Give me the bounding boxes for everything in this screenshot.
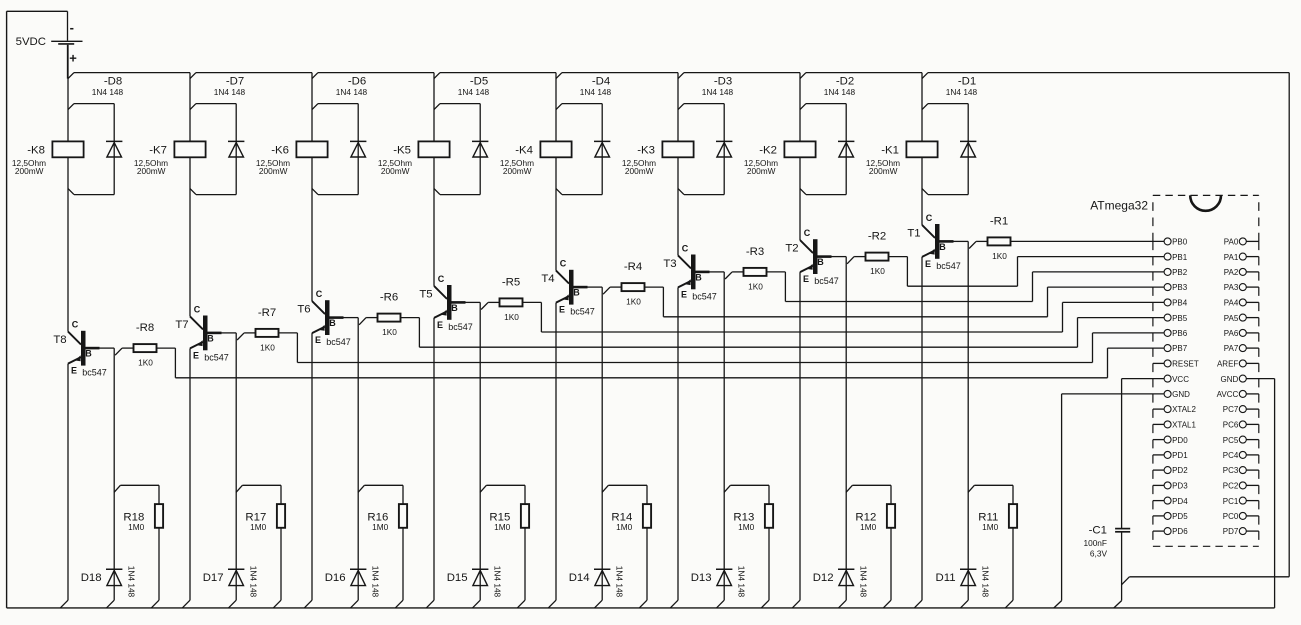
transistor T7 bc547 [175, 304, 228, 362]
pin PA1 [1224, 253, 1259, 262]
pin PC4 [1223, 451, 1259, 460]
svg-text:E: E [315, 335, 321, 345]
diode D7 flyback 1N4148 [190, 76, 246, 195]
svg-text:-: - [70, 20, 74, 35]
diode D18 1N4148 [81, 566, 137, 608]
svg-text:PD1: PD1 [1172, 451, 1188, 460]
svg-text:E: E [925, 259, 931, 269]
svg-text:XTAL2: XTAL2 [1172, 405, 1196, 414]
pin PC3 [1223, 466, 1259, 475]
svg-text:T2: T2 [785, 243, 798, 255]
svg-text:T3: T3 [663, 258, 676, 270]
wire coil rail stage 7 [189, 73, 191, 317]
svg-text:AVCC: AVCC [1217, 390, 1239, 399]
pin GND [1221, 375, 1247, 384]
svg-text:D17: D17 [203, 572, 224, 584]
pin PC6 [1223, 421, 1259, 430]
svg-text:C: C [194, 304, 201, 314]
svg-text:1N4 148: 1N4 148 [615, 566, 625, 598]
svg-text:1N4 148: 1N4 148 [127, 566, 137, 598]
svg-text:-C1: -C1 [1089, 525, 1107, 537]
svg-text:PC0: PC0 [1223, 512, 1239, 521]
svg-text:PB2: PB2 [1172, 268, 1188, 277]
svg-text:-D2: -D2 [836, 76, 854, 88]
svg-text:100nF: 100nF [1083, 538, 1107, 548]
pin GND [1164, 390, 1190, 399]
relay K6 [256, 141, 328, 176]
svg-text:AREF: AREF [1217, 360, 1238, 369]
svg-text:bc547: bc547 [692, 291, 717, 301]
svg-text:bc547: bc547 [204, 352, 229, 362]
svg-text:PC6: PC6 [1223, 421, 1239, 430]
svg-text:PA4: PA4 [1224, 299, 1239, 308]
resistor R8 1K0 [122, 322, 156, 368]
svg-text:C: C [804, 228, 811, 238]
svg-text:1K0: 1K0 [992, 251, 1007, 261]
resistor R2 1K0 [854, 231, 888, 277]
svg-text:-K2: -K2 [759, 144, 777, 156]
wire base node T4 [587, 287, 610, 600]
svg-text:-R8: -R8 [136, 322, 154, 334]
pin PB0 [1164, 238, 1188, 247]
wire emitter rail T1 to ground [914, 257, 922, 608]
svg-text:E: E [193, 350, 199, 360]
wire base node T6 [343, 318, 366, 601]
pin PB5 [1164, 314, 1188, 323]
wire coil rail stage 4 [555, 73, 557, 271]
svg-text:6,3V: 6,3V [1090, 549, 1108, 559]
svg-text:1M0: 1M0 [616, 522, 633, 532]
pin PD7 [1223, 527, 1259, 536]
svg-text:-K5: -K5 [393, 144, 411, 156]
wire +5V top bus segment stage 8 [68, 73, 190, 79]
wire base node T2 [831, 257, 854, 601]
transistor T1 bc547 [907, 213, 960, 271]
svg-text:200mW: 200mW [137, 166, 166, 176]
svg-text:200mW: 200mW [747, 166, 776, 176]
wire top bus right drop [1288, 73, 1290, 577]
pin PC7 [1223, 405, 1259, 414]
pin PC5 [1223, 436, 1259, 445]
svg-text:PC3: PC3 [1223, 466, 1239, 475]
svg-text:T5: T5 [419, 288, 432, 300]
svg-text:1N4 148: 1N4 148 [824, 87, 856, 97]
svg-text:D18: D18 [81, 572, 102, 584]
diode D12 1N4148 [813, 566, 869, 608]
diode D15 1N4148 [447, 566, 503, 608]
diode D8 flyback 1N4148 [68, 76, 124, 195]
svg-text:GND: GND [1172, 390, 1190, 399]
svg-text:-K8: -K8 [27, 144, 45, 156]
svg-text:T4: T4 [541, 273, 554, 285]
svg-text:200mW: 200mW [503, 166, 532, 176]
resistor R18 1M0 [114, 485, 163, 608]
svg-text:1N4 148: 1N4 148 [580, 87, 612, 97]
wire base node T8 [99, 348, 122, 600]
svg-text:-D7: -D7 [226, 76, 244, 88]
svg-text:-D4: -D4 [592, 76, 610, 88]
wire +5V top bus segment stage 4 [556, 73, 678, 79]
diode D16 1N4148 [325, 566, 381, 608]
svg-text:T8: T8 [53, 334, 66, 346]
svg-text:PB4: PB4 [1172, 299, 1188, 308]
transistor T2 bc547 [785, 228, 838, 286]
wire +5V top bus segment stage 2 [800, 73, 922, 79]
svg-text:B: B [329, 318, 336, 328]
diode D4 flyback 1N4148 [556, 76, 612, 195]
svg-text:D16: D16 [325, 572, 346, 584]
resistor R7 1K0 [244, 307, 278, 353]
svg-text:-R2: -R2 [868, 231, 886, 243]
svg-text:1M0: 1M0 [860, 522, 877, 532]
diode D17 1N4148 [203, 566, 259, 608]
svg-text:1M0: 1M0 [372, 522, 389, 532]
svg-text:ATmega32: ATmega32 [1090, 198, 1148, 212]
resistor R14 1M0 [602, 485, 651, 608]
svg-text:PD7: PD7 [1223, 527, 1239, 536]
svg-text:E: E [71, 366, 77, 376]
svg-text:1M0: 1M0 [738, 522, 755, 532]
svg-text:1M0: 1M0 [982, 522, 999, 532]
pin VCC [1164, 375, 1189, 384]
svg-text:1N4 148: 1N4 148 [702, 87, 734, 97]
wire base node T1 [953, 241, 976, 600]
svg-text:bc547: bc547 [814, 276, 839, 286]
transistor T6 bc547 [297, 289, 350, 347]
pin PD1 [1153, 451, 1188, 460]
pin PA4 [1224, 299, 1259, 308]
wire emitter rail T7 to ground [182, 348, 190, 608]
wire +5V top bus segment stage 5 [434, 73, 556, 79]
wire +5V top bus segment stage 7 [190, 73, 312, 79]
svg-text:PA7: PA7 [1224, 344, 1239, 353]
svg-text:PA3: PA3 [1224, 283, 1239, 292]
svg-text:1K0: 1K0 [504, 312, 519, 322]
capacitor C1 100nF [1083, 379, 1130, 608]
wire +5V top bus segment stage 6 [312, 73, 434, 79]
svg-text:PA5: PA5 [1224, 314, 1239, 323]
svg-text:bc547: bc547 [936, 261, 961, 271]
svg-text:1N4 148: 1N4 148 [859, 566, 869, 598]
svg-text:PC4: PC4 [1223, 451, 1239, 460]
svg-text:B: B [207, 333, 214, 343]
diode D1 flyback 1N4148 [922, 76, 978, 195]
pin PA5 [1224, 314, 1259, 323]
svg-text:PB0: PB0 [1172, 238, 1188, 247]
svg-text:1M0: 1M0 [250, 522, 267, 532]
transistor T4 bc547 [541, 259, 594, 317]
svg-text:1K0: 1K0 [382, 327, 397, 337]
pin PA0 [1224, 238, 1259, 247]
wire coil rail stage 2 [799, 73, 801, 241]
resistor R11 1M0 [968, 485, 1017, 608]
wire coil rail stage 1 [921, 73, 923, 225]
svg-text:PA0: PA0 [1224, 238, 1239, 247]
diode D3 flyback 1N4148 [678, 76, 734, 195]
pin PA7 [1224, 344, 1259, 353]
svg-text:PD2: PD2 [1172, 466, 1188, 475]
svg-text:200mW: 200mW [625, 166, 654, 176]
pin PD6 [1153, 527, 1188, 536]
wire emitter rail T5 to ground [426, 318, 434, 608]
wire coil rail stage 8 [67, 45, 69, 332]
svg-text:1M0: 1M0 [128, 522, 145, 532]
wire emitter rail T3 to ground [670, 287, 678, 608]
svg-text:-D1: -D1 [958, 76, 976, 88]
svg-text:XTAL1: XTAL1 [1172, 421, 1196, 430]
svg-text:T7: T7 [175, 319, 188, 331]
transistor T8 bc547 [53, 320, 106, 378]
svg-text:1K0: 1K0 [748, 281, 763, 291]
wire base node T7 [221, 333, 244, 600]
svg-text:PA2: PA2 [1224, 268, 1239, 277]
svg-text:1N4 148: 1N4 148 [336, 87, 368, 97]
svg-text:PA1: PA1 [1224, 253, 1239, 262]
svg-text:D13: D13 [691, 572, 712, 584]
svg-text:D15: D15 [447, 572, 468, 584]
svg-text:200mW: 200mW [381, 166, 410, 176]
wire coil rail stage 6 [311, 73, 313, 302]
svg-text:200mW: 200mW [15, 166, 44, 176]
svg-text:1N4 148: 1N4 148 [458, 87, 490, 97]
wire emitter rail T4 to ground [548, 303, 556, 608]
pin PC2 [1223, 482, 1259, 491]
svg-text:B: B [695, 272, 702, 282]
pin PB7 [1164, 344, 1188, 353]
wire signal R7 to PB6 [279, 333, 1165, 363]
svg-text:B: B [817, 257, 824, 267]
svg-text:PB5: PB5 [1172, 314, 1188, 323]
svg-text:PB1: PB1 [1172, 253, 1188, 262]
svg-text:B: B [573, 288, 580, 298]
svg-text:1N4 148: 1N4 148 [249, 566, 259, 598]
svg-text:bc547: bc547 [82, 368, 107, 378]
pin AREF [1217, 360, 1259, 369]
wire VCC to C1 [1122, 378, 1165, 380]
resistor R17 1M0 [236, 485, 285, 608]
wire right GND pin to ground rail [1246, 379, 1274, 608]
svg-text:PC1: PC1 [1223, 497, 1239, 506]
resistor R6 1K0 [366, 292, 400, 338]
wire signal R6 to PB5 [401, 318, 1165, 348]
resistor R1 1K0 [976, 215, 1010, 261]
wire coil rail stage 3 [677, 73, 679, 256]
transistor T3 bc547 [663, 243, 716, 301]
svg-text:RESET: RESET [1172, 360, 1199, 369]
wire base node T3 [709, 272, 732, 600]
svg-text:-R7: -R7 [258, 307, 276, 319]
svg-text:C: C [926, 213, 933, 223]
resistor R13 1M0 [724, 485, 773, 608]
pin PB3 [1164, 283, 1188, 292]
svg-text:PB3: PB3 [1172, 283, 1188, 292]
svg-text:1K0: 1K0 [626, 297, 641, 307]
pin PB4 [1164, 299, 1188, 308]
pin XTAL2 [1153, 405, 1197, 414]
svg-text:5VDC: 5VDC [16, 36, 46, 48]
pin PA6 [1224, 329, 1259, 338]
svg-text:-R4: -R4 [624, 261, 642, 273]
svg-text:VCC: VCC [1172, 375, 1189, 384]
svg-text:D14: D14 [569, 572, 590, 584]
pin PD3 [1153, 482, 1188, 491]
pin PC1 [1223, 497, 1259, 506]
svg-text:PD5: PD5 [1172, 512, 1188, 521]
relay K7 [134, 141, 206, 176]
wire lower right horizontal [1122, 577, 1290, 585]
resistor R4 1K0 [610, 261, 644, 307]
relay K1 [866, 141, 938, 176]
svg-text:-K7: -K7 [149, 144, 167, 156]
svg-text:-R1: -R1 [990, 215, 1008, 227]
battery 5VDC [16, 11, 83, 78]
svg-text:GND: GND [1221, 375, 1239, 384]
svg-text:C: C [438, 274, 445, 284]
svg-text:D11: D11 [936, 572, 956, 584]
svg-text:-D3: -D3 [714, 76, 732, 88]
resistor R3 1K0 [732, 246, 766, 292]
wire signal R8 to PB7 [157, 348, 1165, 378]
svg-text:1K0: 1K0 [138, 358, 153, 368]
wire signal R2 to PB1 [889, 257, 1165, 287]
svg-text:C: C [682, 243, 689, 253]
wire signal R4 to PB3 [645, 287, 1165, 317]
svg-text:-R3: -R3 [746, 246, 764, 258]
wire base node T5 [465, 302, 488, 600]
pin PA3 [1224, 283, 1259, 292]
resistor R15 1M0 [480, 485, 529, 608]
svg-text:E: E [437, 320, 443, 330]
svg-text:1N4 148: 1N4 148 [737, 566, 747, 598]
relay K8 [12, 141, 84, 176]
pin XTAL1 [1153, 421, 1197, 430]
pin PB6 [1164, 329, 1188, 338]
svg-text:-D5: -D5 [470, 76, 488, 88]
svg-text:bc547: bc547 [448, 322, 473, 332]
svg-text:B: B [939, 242, 946, 252]
svg-text:PD0: PD0 [1172, 436, 1188, 445]
svg-text:-R5: -R5 [502, 276, 520, 288]
wire +5V top bus segment stage 3 [678, 73, 800, 79]
svg-text:D12: D12 [813, 572, 834, 584]
wire emitter rail T8 to ground [60, 364, 68, 608]
svg-text:C: C [72, 320, 79, 330]
svg-text:1M0: 1M0 [494, 522, 511, 532]
diode D6 flyback 1N4148 [312, 76, 368, 195]
svg-text:-R6: -R6 [380, 292, 398, 304]
svg-text:+: + [69, 50, 77, 65]
svg-text:E: E [559, 305, 565, 315]
svg-text:PC5: PC5 [1223, 436, 1239, 445]
diode D2 flyback 1N4148 [800, 76, 856, 195]
svg-text:B: B [451, 303, 458, 313]
svg-text:C: C [560, 259, 567, 269]
svg-text:-D6: -D6 [348, 76, 366, 88]
diode D14 1N4148 [569, 566, 625, 608]
wire GND pin to ground rail [1054, 394, 1164, 608]
svg-text:PB7: PB7 [1172, 344, 1188, 353]
wire emitter rail T6 to ground [304, 333, 312, 608]
svg-text:1N4 148: 1N4 148 [214, 87, 246, 97]
wire signal R5 to PB4 [523, 302, 1165, 332]
svg-text:1N4 148: 1N4 148 [946, 87, 978, 97]
pin PD0 [1153, 436, 1188, 445]
relay K2 [744, 141, 816, 176]
svg-text:-K1: -K1 [881, 144, 899, 156]
svg-text:B: B [85, 349, 92, 359]
svg-text:-K4: -K4 [515, 144, 533, 156]
relay K5 [378, 141, 450, 176]
pin AVCC [1217, 390, 1259, 399]
svg-text:PC2: PC2 [1223, 482, 1239, 491]
pin PB1 [1164, 253, 1188, 262]
svg-text:200mW: 200mW [869, 166, 898, 176]
svg-text:E: E [803, 274, 809, 284]
svg-text:1N4 148: 1N4 148 [493, 566, 503, 598]
svg-text:PA6: PA6 [1224, 329, 1239, 338]
wire signal R3 to PB2 [767, 272, 1165, 302]
diode D13 1N4148 [691, 566, 747, 608]
svg-text:1K0: 1K0 [260, 342, 275, 352]
pin PD2 [1153, 466, 1188, 475]
svg-text:C: C [316, 289, 323, 299]
wire emitter rail T2 to ground [792, 272, 800, 608]
relay K3 [622, 141, 694, 176]
wire +5V top bus segment stage 1 [922, 73, 1289, 79]
pin PB2 [1164, 268, 1188, 277]
svg-text:-K3: -K3 [637, 144, 655, 156]
svg-text:PC7: PC7 [1223, 405, 1239, 414]
resistor R16 1M0 [358, 485, 407, 608]
wire coil rail stage 5 [433, 73, 435, 286]
svg-text:PD6: PD6 [1172, 527, 1188, 536]
pin PD5 [1153, 512, 1188, 521]
svg-text:bc547: bc547 [570, 307, 595, 317]
svg-text:T1: T1 [907, 227, 920, 239]
svg-text:1N4 148: 1N4 148 [371, 566, 381, 598]
ground bottom rail [7, 607, 1275, 609]
pin PC0 [1223, 512, 1259, 521]
svg-text:bc547: bc547 [326, 337, 351, 347]
svg-text:-D8: -D8 [104, 76, 122, 88]
pin PD4 [1153, 497, 1188, 506]
svg-text:-K6: -K6 [271, 144, 289, 156]
svg-text:E: E [681, 289, 687, 299]
svg-text:PD4: PD4 [1172, 497, 1188, 506]
resistor R5 1K0 [488, 276, 522, 322]
IC U1 ATmega32 [1090, 195, 1259, 546]
svg-text:PD3: PD3 [1172, 482, 1188, 491]
resistor R12 1M0 [846, 485, 895, 608]
svg-text:1N4 148: 1N4 148 [981, 566, 991, 598]
relay K4 [500, 141, 572, 176]
svg-text:1K0: 1K0 [870, 266, 885, 276]
diode D11 1N4148 [936, 566, 991, 608]
wire signal R1 to PB0 [1011, 240, 1165, 242]
ground return wire (battery minus, left frame) [7, 11, 68, 608]
svg-text:PB6: PB6 [1172, 329, 1188, 338]
pin PA2 [1224, 268, 1259, 277]
svg-text:1N4 148: 1N4 148 [92, 87, 124, 97]
svg-text:200mW: 200mW [259, 166, 288, 176]
transistor T5 bc547 [419, 274, 472, 332]
svg-text:T6: T6 [297, 304, 310, 316]
pin RESET [1153, 360, 1199, 369]
diode D5 flyback 1N4148 [434, 76, 490, 195]
